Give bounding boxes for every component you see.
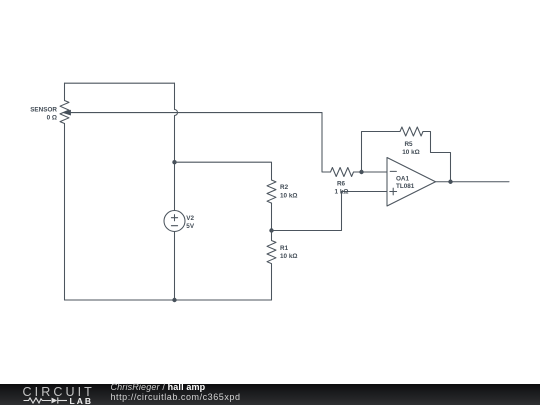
- svg-text:10 kΩ: 10 kΩ: [402, 149, 419, 156]
- svg-text:TL081: TL081: [396, 183, 415, 190]
- CircuitLab logo text LAB: [70, 396, 93, 406]
- wire feedback right: [423, 132, 451, 182]
- resistor R5: [400, 127, 423, 136]
- wire left vertical upper: [64, 83, 66, 100]
- SENSOR label: [30, 106, 57, 121]
- wiper arrow of SENSOR: [62, 110, 322, 116]
- op-amp OA1: [387, 158, 436, 207]
- wire bottom horizontal: [65, 299, 272, 301]
- wire R6 to minus input: [354, 171, 388, 173]
- svg-text:10 kΩ: 10 kΩ: [280, 192, 297, 199]
- junction dot node B: [269, 228, 273, 232]
- logo diode: [52, 397, 68, 403]
- logo resistor zigzag: [24, 398, 52, 403]
- R5 label: [402, 141, 419, 156]
- R6 label: [335, 181, 349, 196]
- voltage source V2: [164, 211, 185, 232]
- svg-text:V2: V2: [186, 215, 194, 222]
- wire node B to plus input: [272, 192, 388, 231]
- wire output: [436, 181, 510, 183]
- resistor R2: [267, 180, 276, 203]
- OA1 label: [396, 176, 415, 190]
- svg-text:1 kΩ: 1 kΩ: [335, 189, 349, 196]
- wire feedback left: [362, 132, 401, 173]
- svg-text:0 Ω: 0 Ω: [47, 114, 57, 121]
- svg-text:OA1: OA1: [396, 176, 410, 183]
- junction dot feedback tap: [359, 170, 363, 174]
- svg-text:10 kΩ: 10 kΩ: [280, 253, 297, 260]
- junction dot bottom middle: [172, 298, 176, 302]
- junction dot node A: [172, 160, 176, 164]
- caption line 1: [111, 382, 206, 392]
- wire top horizontal: [65, 82, 175, 84]
- wire R2 to node B: [271, 203, 273, 230]
- CircuitLab logo text CIRCUIT: [23, 385, 95, 399]
- svg-text:R1: R1: [280, 245, 289, 252]
- wire left vertical lower: [64, 124, 66, 301]
- wire node A to R2: [175, 162, 272, 180]
- svg-text:R6: R6: [337, 181, 346, 188]
- svg-text:SENSOR: SENSOR: [30, 106, 57, 113]
- R2 label: [280, 184, 297, 199]
- caption line 2: [111, 392, 241, 402]
- resistor R1: [267, 231, 276, 301]
- svg-text:R5: R5: [404, 141, 413, 148]
- R1 label: [280, 245, 297, 260]
- footer bar: [0, 384, 540, 405]
- svg-text:R2: R2: [280, 184, 289, 191]
- resistor R6: [331, 168, 354, 177]
- V2 label: [186, 215, 195, 230]
- CircuitLab logo resistor-diode glyph: [20, 396, 70, 406]
- potentiometer SENSOR: [60, 101, 69, 124]
- wire wiper to R6: [322, 113, 331, 172]
- wire middle vertical below V2: [174, 232, 176, 301]
- svg-text:5V: 5V: [186, 223, 195, 230]
- junction dot output: [448, 180, 452, 184]
- wire middle vertical with hop over wiper wire: [175, 83, 178, 210]
